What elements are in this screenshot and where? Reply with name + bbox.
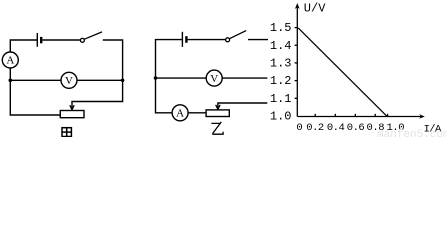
battery B1 long plate (+) — [36, 33, 38, 47]
wire: voltmeter to right side — [222, 77, 267, 79]
switch S2 blade (open) — [230, 31, 247, 39]
rheostat R2 slider arrow — [216, 105, 220, 109]
svg-text:0.6: 0.6 — [347, 122, 365, 134]
wire: middle row to voltmeter — [156, 77, 207, 79]
node: junction dot left side — [154, 76, 158, 80]
y tick 1.1 — [295, 97, 298, 99]
svg-text:1.3: 1.3 — [270, 57, 292, 71]
rheostat R1 slider arrow — [70, 105, 74, 109]
wire: switch contact to top-right corner and right side down — [248, 39, 268, 41]
wire: left side down to ammeter — [156, 78, 173, 113]
wire: voltmeter to right junction — [77, 79, 123, 81]
battery B2 long plate (+) — [181, 32, 183, 47]
wire: right side down to slider feed — [72, 80, 123, 110]
y tick 1.2 — [295, 80, 298, 82]
wire: right side down to slider feed — [218, 103, 267, 110]
switch S1 blade (open) — [84, 32, 102, 39]
y tick 1.5 — [295, 27, 298, 29]
x tick 0.2 — [314, 114, 316, 117]
wire: ammeter to rheostat — [188, 112, 206, 114]
label 甲 — [62, 128, 71, 137]
ammeter A2 — [172, 105, 188, 121]
wire: top-left corner to battery — [156, 40, 183, 78]
svg-text:1.4: 1.4 — [270, 39, 292, 53]
svg-text:manfen5.com: manfen5.com — [377, 129, 446, 137]
wire: switch contact to top-right corner, down right side — [103, 40, 123, 80]
svg-text:A: A — [6, 55, 14, 67]
battery B1 short thick plate (-) — [40, 37, 42, 43]
svg-text:U/V: U/V — [304, 2, 326, 16]
svg-text:1.5: 1.5 — [270, 21, 292, 35]
voltmeter V1 — [61, 72, 77, 88]
svg-text:0.4: 0.4 — [327, 122, 345, 134]
x-axis I/A — [297, 116, 422, 118]
svg-text:1.0: 1.0 — [270, 110, 292, 124]
x-axis arrowhead — [419, 114, 425, 119]
y tick 1.3 — [295, 62, 298, 64]
y tick 1.4 — [295, 44, 298, 46]
wire: top-left wire from corner to battery — [10, 40, 37, 52]
x tick 0.4 — [334, 114, 336, 117]
x tick 1.0 — [387, 114, 389, 117]
svg-text:0: 0 — [296, 122, 302, 134]
data line U = 1.5 - 0.5 I — [298, 28, 387, 117]
wire: ammeter down-lead and bottom wire to rheostat — [10, 68, 60, 115]
wire: battery to switch — [188, 39, 226, 41]
node: junction dot right side — [121, 79, 125, 83]
switch S2 pivot — [226, 38, 230, 42]
node: junction dot left side — [9, 79, 13, 83]
switch S1 pivot — [80, 38, 84, 42]
svg-text:1.1: 1.1 — [270, 92, 292, 106]
svg-text:0.2: 0.2 — [306, 122, 324, 134]
wire: battery to switch — [42, 39, 80, 41]
rheostat R2 body — [206, 110, 229, 117]
svg-text:V: V — [65, 75, 73, 87]
ammeter A1 — [2, 52, 18, 68]
battery B2 short thick plate (-) — [185, 36, 187, 43]
rheostat R1 body — [60, 111, 84, 118]
svg-text:A: A — [176, 108, 184, 120]
wire: middle row to voltmeter — [10, 79, 61, 81]
voltmeter V2 — [206, 70, 222, 86]
label 乙 — [211, 122, 223, 134]
y-axis U/V — [296, 5, 298, 117]
y-axis arrowhead — [295, 3, 300, 9]
x tick 0.8 — [374, 114, 376, 117]
svg-text:V: V — [210, 73, 218, 85]
x tick 0.6 — [354, 114, 356, 117]
svg-text:1.2: 1.2 — [270, 74, 292, 88]
